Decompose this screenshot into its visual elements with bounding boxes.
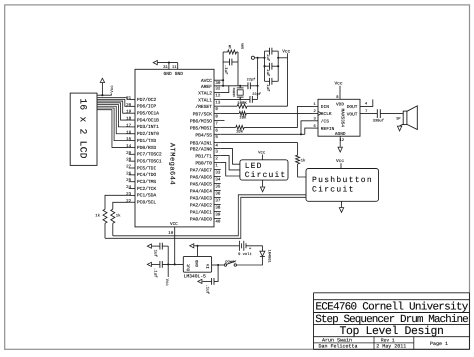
- svg-text:PB7/SCK: PB7/SCK: [193, 111, 213, 117]
- Vcc net tail: [167, 264, 169, 277]
- svg-text:power: power: [225, 259, 236, 264]
- U1 top pins 31 11 GND: [168, 63, 170, 70]
- ground symbol pushbutton: [339, 208, 343, 213]
- U1 left pin 20 PD6/ICP: [129, 105, 135, 107]
- U1 right pin 2 PB1/T1: [214, 155, 221, 157]
- capacitor C9 330uf: [376, 109, 378, 118]
- wire C10 down to Vcc node: [167, 246, 169, 264]
- svg-text:30: 30: [215, 81, 221, 86]
- svg-text:Vcc: Vcc: [334, 82, 342, 87]
- U1 right pin 32 AREF: [214, 85, 221, 87]
- wire AIN0 to LED: [221, 149, 240, 165]
- U1 left pin 23 PC1/SDA: [129, 194, 135, 196]
- svg-text:PD5/OC1A: PD5/OC1A: [137, 111, 159, 117]
- capacitor C12 .1uf: [211, 278, 213, 285]
- U1 left pin 22 PC0/SCL: [129, 201, 135, 203]
- wire battery to diode: [246, 246, 262, 251]
- svg-text:PC3/TMS: PC3/TMS: [137, 179, 157, 185]
- U1 right pin 5 PB4/SS: [214, 133, 221, 135]
- svg-text:PC5/TDI: PC5/TDI: [137, 165, 157, 171]
- capacitor bank right rail: [277, 51, 279, 81]
- svg-text:PA6/ADC6: PA6/ADC6: [190, 175, 212, 181]
- wire diode to switch: [237, 257, 263, 265]
- speaker SP: [403, 111, 407, 125]
- wire crystal top rail: [223, 85, 248, 87]
- svg-text:PD0/RXD: PD0/RXD: [137, 145, 157, 151]
- resistor R_sck 10k: [221, 112, 240, 114]
- svg-text:100K: 100K: [237, 101, 247, 106]
- svg-text:MAX5354: MAX5354: [339, 109, 344, 128]
- Vcc symbol at LCD: [100, 78, 104, 82]
- junction dot reg In: [217, 264, 219, 266]
- ground symbol speaker: [397, 126, 401, 131]
- DAC pin 3 CS stub: [312, 120, 319, 122]
- svg-text:SP: SP: [396, 117, 400, 122]
- svg-text:SCLK: SCLK: [321, 111, 332, 117]
- ground symbol DAC: [338, 147, 342, 152]
- U1 right pin 6 PB5/MOSI: [214, 126, 221, 128]
- U1 left pin 25 PC3/TMS: [129, 181, 135, 183]
- svg-text:VOUT: VOUT: [347, 111, 358, 117]
- svg-text:32: 32: [215, 87, 221, 92]
- U1 right pin 7 PB6/MISO: [214, 119, 221, 121]
- svg-text:26: 26: [126, 171, 132, 176]
- svg-text:24: 24: [126, 185, 132, 190]
- wire Vcc node rail: [162, 263, 183, 265]
- wire Vcc to LED box: [262, 155, 264, 160]
- svg-text:.1uf: .1uf: [153, 268, 158, 278]
- svg-text:9 volt: 9 volt: [238, 252, 252, 257]
- wire Vcc vertical: [287, 53, 289, 106]
- svg-text:In: In: [206, 263, 211, 269]
- svg-text:Top Level Design: Top Level Design: [339, 325, 443, 338]
- wire Vcc to pushbutton box: [340, 163, 342, 168]
- svg-text:12: 12: [215, 94, 221, 99]
- junction dot port: [257, 57, 259, 59]
- U1 right pin 37 PA3/ADC3: [214, 197, 221, 199]
- wire sda resistor to bus: [104, 223, 106, 238]
- svg-text:AREF: AREF: [201, 84, 212, 90]
- svg-text:33: 33: [215, 171, 221, 176]
- U1 right pin 1 PB0/T0: [214, 162, 221, 164]
- wire cap to speaker: [380, 113, 403, 115]
- ground symbol C12: [198, 279, 202, 283]
- svg-text:PB6/MISO: PB6/MISO: [190, 118, 212, 124]
- svg-text:DOUT: DOUT: [347, 104, 358, 110]
- svg-text:/RESET: /RESET: [195, 104, 212, 110]
- U1 right pin 36 PA4/ADC4: [214, 190, 221, 192]
- capacitor C5 1uf: [265, 50, 270, 52]
- svg-text:Vcc: Vcc: [258, 151, 266, 156]
- svg-text:Vcc: Vcc: [110, 85, 115, 93]
- svg-text:PB1/T1: PB1/T1: [195, 154, 212, 160]
- svg-text:4: 4: [365, 102, 368, 107]
- svg-text:1uf: 1uf: [265, 69, 270, 77]
- wire AIN1 to pushbutton: [221, 142, 298, 144]
- svg-text:PC7/TOSC2: PC7/TOSC2: [137, 152, 162, 158]
- U1 right pin 33 PA7/ADC7: [214, 169, 221, 171]
- wire cap2 to gnd rail: [252, 98, 257, 100]
- DAC clock input symbol: [318, 111, 321, 115]
- svg-text:22pf: 22pf: [252, 92, 261, 97]
- resistor R_mosi 10k: [221, 126, 236, 128]
- svg-text:7: 7: [215, 121, 218, 126]
- svg-text:2 May 2011: 2 May 2011: [376, 343, 406, 349]
- DAC pin 6 REFIN stub: [312, 127, 319, 129]
- wire node B vertical: [237, 52, 239, 86]
- svg-text:330uf: 330uf: [373, 119, 385, 124]
- svg-text:REFIN: REFIN: [321, 127, 335, 132]
- svg-text:6: 6: [215, 128, 218, 133]
- wire XTAL1: [221, 98, 250, 100]
- svg-text:23: 23: [126, 192, 132, 197]
- voltage regulator U3 LM340L-5: [183, 256, 211, 272]
- U1 left pin 21 PD7/OC2: [129, 99, 135, 101]
- wire MOSI to DAC DIN: [244, 106, 311, 127]
- svg-text:10k: 10k: [236, 129, 244, 134]
- wire speaker to ground: [400, 124, 404, 126]
- svg-text:PA4/ADC4: PA4/ADC4: [190, 189, 212, 195]
- svg-text:ATMega644: ATMega644: [167, 143, 175, 185]
- wire node A vertical: [222, 52, 224, 86]
- svg-text:1k: 1k: [301, 158, 306, 163]
- svg-text:PB3/AIN1: PB3/AIN1: [190, 141, 212, 147]
- svg-text:PA7/ADC7: PA7/ADC7: [190, 168, 212, 174]
- svg-text:31: 31: [163, 65, 168, 70]
- U1 right pin 3 PB2/AIN0: [214, 148, 221, 150]
- svg-text:PA0/ADC0: PA0/ADC0: [190, 217, 212, 223]
- junction dot SS: [300, 133, 302, 135]
- svg-text:PD7/OC2: PD7/OC2: [137, 97, 157, 103]
- junction dot pin10 Vcc: [174, 263, 176, 265]
- svg-text:/CS: /CS: [321, 119, 329, 125]
- U1 right pin 13 XTAL1: [214, 98, 221, 100]
- svg-text:PB5/MOSI: PB5/MOSI: [190, 125, 212, 131]
- wire Vcc to DAC VDD: [339, 86, 341, 100]
- resistor R_reset 100K: [221, 105, 238, 107]
- junction dot reg gnd: [196, 245, 198, 247]
- DAC U2 MAX5354 body: [318, 99, 360, 136]
- svg-text:7: 7: [365, 109, 367, 114]
- svg-text:19: 19: [126, 110, 132, 115]
- wire regulator GND up: [197, 246, 199, 257]
- svg-text:1M: 1M: [228, 45, 233, 49]
- svg-text:12: 12: [340, 138, 345, 143]
- svg-text:PD2/INT0: PD2/INT0: [137, 131, 159, 137]
- svg-text:AVCC: AVCC: [201, 78, 212, 84]
- svg-text:1uf: 1uf: [265, 54, 270, 62]
- svg-text:29: 29: [126, 151, 132, 156]
- svg-text:27: 27: [126, 165, 132, 170]
- wire I2C bus upper: [113, 195, 306, 236]
- ground symbol LED: [260, 187, 264, 192]
- wire pushbutton to ground: [341, 201, 343, 207]
- wire Vcc from pin 10 down: [174, 227, 176, 265]
- svg-text:17: 17: [126, 123, 132, 128]
- svg-text:Vcc: Vcc: [282, 49, 290, 54]
- capacitor C4 22pf: [249, 96, 251, 103]
- DAC pin 2 SCLK stub: [312, 112, 319, 114]
- wire LED box to ground: [262, 180, 264, 187]
- svg-text:10: 10: [168, 231, 174, 236]
- svg-text:PB2/AIN0: PB2/AIN0: [190, 147, 212, 153]
- capacitor C_aref .1uf: [223, 61, 230, 63]
- wire ground rail to battery: [198, 245, 240, 247]
- wire AIN1 down: [297, 143, 299, 156]
- LED circuit block: [240, 160, 288, 180]
- svg-text:XTAL2: XTAL2: [198, 91, 212, 97]
- svg-text:PD1/TXD: PD1/TXD: [137, 138, 157, 144]
- wire DAC AGND to ground: [339, 136, 341, 146]
- wire to DAC REFIN: [305, 128, 312, 134]
- svg-text:Circuit: Circuit: [312, 186, 355, 195]
- U1 right pin 38 PA2/ADC2: [214, 204, 221, 206]
- svg-text:Circuit: Circuit: [245, 171, 287, 180]
- svg-text:37: 37: [215, 199, 221, 204]
- svg-text:PB0/T0: PB0/T0: [195, 161, 212, 167]
- wire ground return vertical: [257, 58, 259, 100]
- svg-text:PC2/TCK: PC2/TCK: [137, 186, 157, 192]
- svg-text:PD6/ICP: PD6/ICP: [137, 104, 157, 110]
- svg-text:PA5/ADC5: PA5/ADC5: [190, 182, 212, 188]
- svg-text:16 x 2 LCD: 16 x 2 LCD: [78, 98, 89, 159]
- title block frame: [314, 292, 470, 294]
- junction dot gnd rail: [257, 85, 259, 87]
- wire LCD data 3 to pin 19: [97, 101, 129, 113]
- svg-text:Page 1: Page 1: [430, 341, 448, 347]
- U1 right pin 34 PA6/ADC6: [214, 176, 221, 178]
- svg-text:Step Sequencer Drum Machine: Step Sequencer Drum Machine: [315, 314, 468, 326]
- wire T0 to LED: [221, 163, 240, 176]
- svg-text:14: 14: [126, 144, 132, 149]
- svg-text:GND: GND: [195, 259, 200, 267]
- junction dot LCD Vcc: [101, 94, 103, 96]
- svg-text:15: 15: [126, 137, 132, 142]
- svg-text:GND: GND: [163, 71, 172, 77]
- svg-text:1k: 1k: [116, 214, 121, 219]
- svg-text:1: 1: [215, 164, 218, 169]
- DAC pin 4 DOUT wire: [360, 99, 373, 106]
- wire LCD data 4 to pin 18: [97, 103, 129, 120]
- svg-text:XTAL1: XTAL1: [198, 97, 212, 103]
- wire LCD data 2 to pin 20: [97, 99, 129, 106]
- svg-text:PD3/INT1: PD3/INT1: [137, 124, 159, 130]
- pushbutton circuit block: [306, 169, 379, 202]
- svg-text:PC1/SDA: PC1/SDA: [137, 193, 157, 199]
- svg-text:1uf: 1uf: [265, 84, 270, 92]
- resistor R_int 1k: [296, 155, 300, 164]
- wire Vcc to LCD: [101, 83, 103, 96]
- svg-text:Vcc: Vcc: [336, 159, 344, 164]
- wire reset to Vcc: [247, 105, 288, 107]
- U1 right pin 39 PA1/ADC1: [214, 211, 221, 213]
- wire SS to DAC CS: [301, 121, 312, 135]
- svg-text:ECE4760 Cornell University: ECE4760 Cornell University: [315, 302, 468, 314]
- svg-text:Dan Felicetta: Dan Felicetta: [318, 344, 357, 350]
- svg-text:+: +: [249, 246, 252, 251]
- U1 right pin 35 PA5/ADC5: [214, 183, 221, 185]
- wire AREF to node: [221, 85, 223, 87]
- wire I2C bus lower: [105, 197, 306, 238]
- capacitor C3 22pf: [247, 82, 249, 89]
- svg-text:16MHz: 16MHz: [232, 87, 236, 97]
- svg-text:1uf: 1uf: [153, 250, 158, 258]
- svg-text:35: 35: [215, 185, 221, 190]
- wire MCU top ground: [158, 62, 178, 64]
- junction dot AREF: [222, 85, 224, 87]
- wire In node down: [214, 265, 218, 281]
- U1 left pin 17 PD3/INT1: [129, 126, 135, 128]
- junction dot bank right: [277, 57, 279, 59]
- wire LCD data 5 to pin 17: [97, 105, 129, 127]
- U1 right pin 30 AVCC: [214, 79, 221, 81]
- capacitor C11 .1uf: [147, 262, 151, 266]
- resistor R_sda 1k: [105, 195, 129, 209]
- svg-text:Pushbutton: Pushbutton: [312, 176, 373, 185]
- svg-text:.1uf: .1uf: [205, 284, 210, 294]
- DAC pin 7 VOUT wire: [360, 113, 377, 115]
- U1 left pin 26 PC4/TDO: [129, 174, 135, 176]
- ground port node: [251, 56, 254, 59]
- svg-text:5: 5: [215, 135, 218, 140]
- svg-text:PC0/SCL: PC0/SCL: [137, 200, 157, 206]
- svg-text:28: 28: [126, 158, 132, 163]
- svg-text:22: 22: [126, 199, 132, 204]
- svg-text:36: 36: [215, 192, 221, 197]
- svg-text:40: 40: [215, 220, 221, 225]
- crystal Y1 16MHz: [239, 86, 241, 88]
- resistor R_scl 1k: [113, 202, 129, 209]
- svg-text:VDD: VDD: [336, 102, 344, 107]
- wire AVCC to node: [221, 79, 223, 81]
- U1 right pin 40 PA0/ADC0: [214, 218, 221, 220]
- svg-text:PB4/SS: PB4/SS: [195, 132, 212, 138]
- svg-text:1N4001: 1N4001: [266, 250, 271, 263]
- U1 left pin 29 PC7/TOSC2: [129, 153, 135, 155]
- svg-text:PD4/OC1B: PD4/OC1B: [137, 117, 159, 123]
- ground symbol at MCU top: [153, 61, 157, 65]
- svg-text:2: 2: [215, 157, 218, 162]
- battery BT1 9 volt: [238, 241, 240, 251]
- svg-text:GND: GND: [175, 71, 184, 77]
- U1 right pin 12 XTAL2: [214, 92, 221, 94]
- junction dot crystal bottom: [239, 98, 241, 100]
- svg-text:34: 34: [215, 178, 221, 183]
- junction dot bank left: [263, 57, 265, 59]
- svg-text:16: 16: [126, 130, 132, 135]
- switch SW1 power: [234, 264, 236, 266]
- wire bank to Vcc: [278, 57, 287, 59]
- wire LCD data 1 to pin 21: [97, 98, 129, 100]
- wire C12 to ground: [202, 280, 211, 282]
- svg-text:1k: 1k: [95, 214, 100, 219]
- diode D1 1N4001: [260, 251, 265, 256]
- svg-text:8: 8: [215, 114, 218, 119]
- svg-text:9: 9: [215, 107, 218, 112]
- svg-text:38: 38: [215, 206, 221, 211]
- wire cap to gnd rail: [250, 85, 257, 87]
- svg-text:13: 13: [215, 100, 221, 105]
- U1 left pin 19 PD5/OC1A: [129, 112, 135, 114]
- svg-text:50k: 50k: [241, 43, 246, 49]
- junction dot bank mid left: [263, 65, 265, 67]
- ground symbol regulator: [190, 244, 194, 248]
- wire T1 to LED: [221, 156, 240, 170]
- U1 right pin 9 /RESET: [214, 105, 221, 107]
- U1 left pin 28 PC6/TOSC1: [129, 160, 135, 162]
- svg-text:DIN: DIN: [321, 105, 329, 110]
- svg-text:PA1/ADC1: PA1/ADC1: [190, 210, 212, 216]
- capacitor bank left rail: [264, 51, 266, 81]
- svg-text:10k: 10k: [239, 115, 247, 120]
- U1 left pin 15 PD1/TXD: [129, 140, 135, 142]
- svg-text:4: 4: [215, 144, 218, 149]
- microcontroller U1 ATMega644 body: [135, 69, 214, 227]
- svg-text:11: 11: [172, 65, 177, 70]
- capacitor C10 1uf: [147, 244, 151, 248]
- wire SS line: [221, 133, 305, 135]
- svg-text:PA2/ADC2: PA2/ADC2: [190, 203, 212, 209]
- junction dot crystal top: [239, 85, 241, 87]
- wire switch to regulator In: [212, 264, 225, 266]
- U1 left pin 16 PD2/INT0: [129, 133, 135, 135]
- LCD module 16x2 box: [70, 93, 97, 165]
- U1 left pin 18 PD4/OC1B: [129, 119, 135, 121]
- capacitor C7 1uf: [265, 80, 270, 82]
- DAC pin 1 DIN stub: [312, 105, 319, 107]
- wire 1k to pushbutton box: [298, 164, 306, 177]
- junction dot AVCC: [222, 79, 224, 81]
- capacitor C6 1uf: [265, 65, 270, 67]
- svg-text:22pf: 22pf: [247, 77, 256, 82]
- U1 right pin 8 PB7/SCK: [214, 112, 221, 114]
- wire scl resistor to bus: [112, 223, 114, 236]
- svg-text:PA3/ADC3: PA3/ADC3: [190, 196, 212, 202]
- svg-text:39: 39: [215, 213, 221, 218]
- junction dot C10: [167, 263, 169, 265]
- svg-text:20: 20: [126, 103, 132, 108]
- svg-text:18: 18: [126, 117, 132, 122]
- wire MISO stub: [221, 119, 225, 121]
- wire LCD data 8 to pin 14: [97, 110, 129, 148]
- svg-text:Vcc: Vcc: [164, 279, 169, 287]
- junction dot bank mid right: [277, 65, 279, 67]
- svg-text:Out: Out: [187, 263, 192, 271]
- svg-text:25: 25: [126, 178, 132, 183]
- svg-text:PC4/TDO: PC4/TDO: [137, 172, 157, 178]
- wire SCK to DAC SCLK: [246, 112, 311, 114]
- svg-text:VCC: VCC: [170, 222, 178, 227]
- wire LCD data 6 to pin 16: [97, 106, 129, 134]
- svg-text:.1uf: .1uf: [223, 65, 228, 75]
- svg-text:LM340L-5: LM340L-5: [184, 274, 206, 280]
- wire LCD data 7 to pin 15: [97, 108, 129, 141]
- svg-text:3: 3: [215, 150, 218, 155]
- svg-text:PC6/TOSC1: PC6/TOSC1: [137, 158, 162, 164]
- U1 left pin 14 PD0/RXD: [129, 146, 135, 148]
- resistor R_aref 1M: [223, 51, 228, 53]
- wire XTAL2 to crystal: [221, 86, 229, 93]
- U1 right pin 4 PB3/AIN1: [214, 142, 221, 144]
- junction dot pin31: [168, 62, 170, 64]
- U1 left pin 27 PC5/TDI: [129, 167, 135, 169]
- U1 left pin 24 PC2/TCK: [129, 188, 135, 190]
